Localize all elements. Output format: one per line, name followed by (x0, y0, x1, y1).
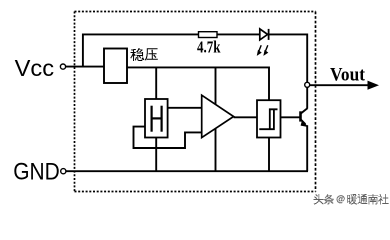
svg-text:4.7k: 4.7k (197, 37, 221, 56)
wire opamp supply vertical (crosses behind opamp) (215, 67, 217, 171)
watermark 头条@暖通南社 (314, 195, 324, 206)
wire ground rail (66, 170, 308, 172)
diode D1 (LED) (260, 29, 269, 40)
transistor Q1 (301, 108, 308, 126)
LED emission arrows (257, 45, 268, 55)
wire top rail resistor to diode (217, 33, 260, 35)
wire diode cathode to right corner down to node (269, 34, 307, 82)
wire schmitt to ground rail (268, 138, 270, 172)
wire Hall right output to opamp noninverting input (168, 107, 202, 109)
IC package dashed boundary (75, 12, 316, 192)
regulator block (voltage regulator) (104, 49, 127, 84)
node output junction (305, 82, 310, 87)
svg-text:Vcc: Vcc (15, 55, 55, 81)
op-amp U1 (202, 95, 234, 137)
label 稳压 (130, 48, 144, 61)
Hall element H box (145, 99, 168, 138)
svg-text:GND: GND (13, 159, 60, 186)
terminal Vcc pin circle (60, 64, 65, 69)
wire opamp output to schmitt input (234, 116, 257, 118)
wire schmitt output to transistor base (281, 116, 301, 118)
terminal GND pin circle (61, 169, 66, 174)
wire collector to output node (306, 87, 308, 109)
wire junction Vcc up to top rail (83, 34, 199, 66)
wire regulated rail to schmitt trigger (127, 67, 269, 100)
wire Vcc input to regulator (66, 66, 104, 68)
wire emitter to ground rail (306, 125, 308, 171)
svg-text:Vout: Vout (330, 65, 366, 85)
wire Hall left output wrap-around to opamp inverting input (134, 127, 202, 148)
wire Vout with arrow (310, 81, 379, 90)
wire Hall element to ground rail (155, 138, 157, 172)
schmitt trigger block (257, 100, 281, 137)
resistor R 4.7k body (199, 32, 218, 38)
wire rail down to Hall element (155, 67, 157, 99)
